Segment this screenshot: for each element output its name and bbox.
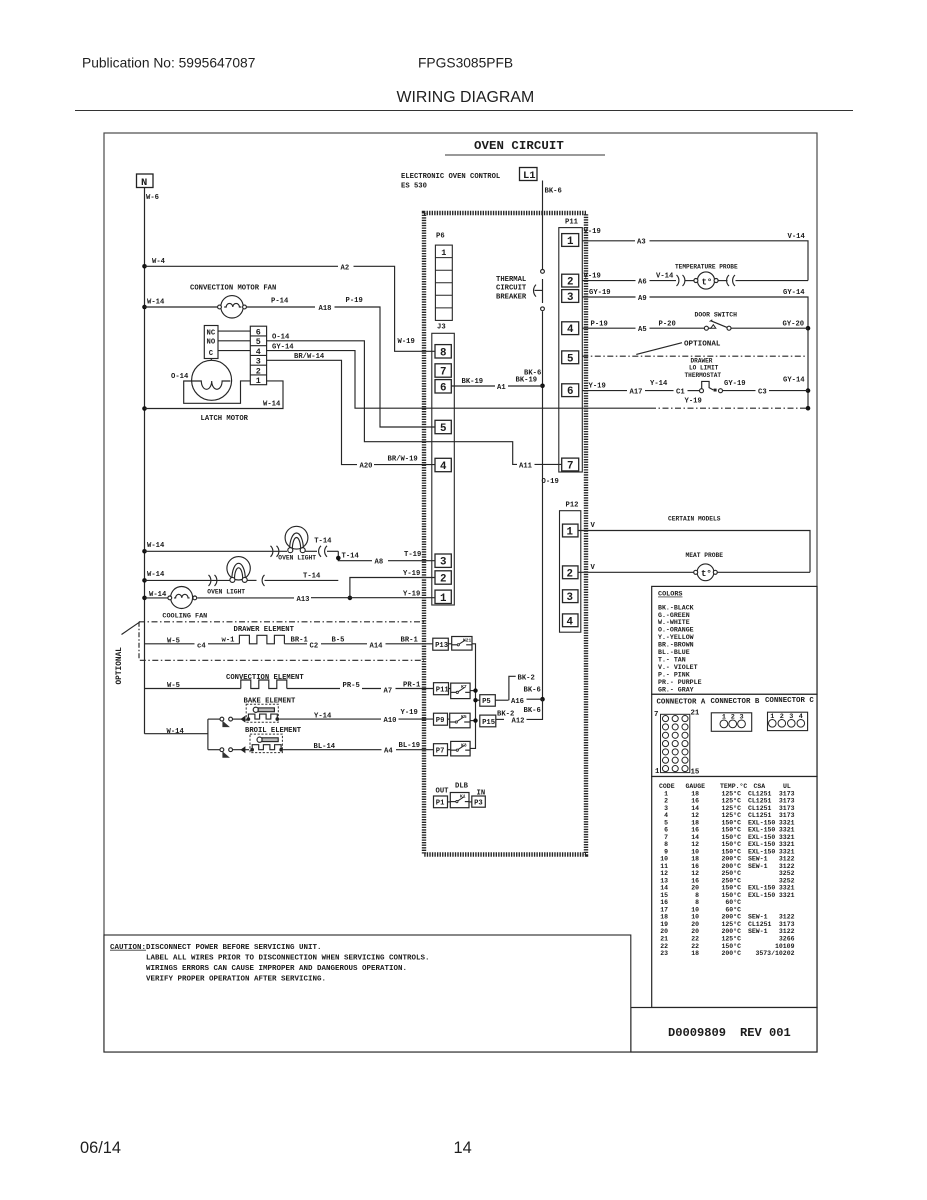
svg-text:O-19: O-19	[542, 478, 559, 486]
svg-text:t°: t°	[702, 277, 713, 287]
pin 3 of J3	[435, 554, 451, 567]
svg-text:200°C: 200°C	[721, 855, 741, 863]
svg-text:P9: P9	[436, 717, 445, 725]
svg-text:250°C: 250°C	[721, 869, 741, 877]
svg-text:BK-19: BK-19	[516, 376, 538, 384]
svg-text:1: 1	[441, 248, 446, 258]
connector P13	[433, 638, 449, 650]
connector P5	[480, 695, 496, 707]
pin 1 of P12	[563, 524, 579, 537]
svg-text:3266: 3266	[779, 936, 795, 943]
svg-text:11: 11	[660, 863, 668, 870]
optional label right	[636, 340, 721, 354]
svg-text:K3: K3	[461, 742, 467, 748]
svg-text:3321: 3321	[779, 819, 795, 826]
connector A pin grid	[654, 710, 700, 777]
wire C to pin 4	[218, 350, 250, 352]
svg-text:EXL-150: EXL-150	[748, 885, 775, 892]
svg-text:1: 1	[664, 790, 668, 797]
svg-text:150°C: 150°C	[721, 833, 741, 841]
connector P9	[434, 713, 448, 725]
svg-text:A8: A8	[375, 559, 384, 567]
svg-text:15: 15	[660, 892, 668, 899]
svg-text:A6: A6	[638, 278, 647, 286]
wire Y-14 A10 Y-19 bake element to P9	[279, 709, 433, 725]
svg-text:BR/W-19: BR/W-19	[388, 456, 418, 464]
svg-text:DISCONNECT POWER BEFORE SERVIC: DISCONNECT POWER BEFORE SERVICING UNIT.	[146, 944, 322, 952]
svg-text:MEAT PROBE: MEAT PROBE	[686, 552, 724, 559]
svg-text:14: 14	[454, 1139, 472, 1157]
svg-text:EXL-150: EXL-150	[748, 848, 775, 855]
svg-text:t°: t°	[701, 569, 712, 579]
svg-text:150°C: 150°C	[721, 818, 741, 826]
pin 2 of P11	[562, 274, 579, 287]
svg-text:DOOR SWITCH: DOOR SWITCH	[695, 312, 738, 319]
svg-text:16: 16	[660, 899, 668, 906]
legend colors box	[652, 586, 817, 694]
wire W-14 latch pin 1 to neutral bus	[145, 381, 284, 409]
svg-text:K7: K7	[461, 684, 467, 690]
svg-text:5: 5	[664, 819, 668, 826]
svg-text:CIRCUIT: CIRCUIT	[496, 285, 527, 293]
svg-text:A14: A14	[370, 642, 384, 650]
wire P11 to K7	[449, 688, 451, 690]
svg-text:BK-2: BK-2	[518, 675, 535, 683]
connector J3	[432, 324, 455, 606]
svg-text:3173: 3173	[779, 812, 795, 819]
connector P12	[560, 502, 581, 633]
svg-text:7: 7	[654, 711, 658, 719]
svg-text:125°C: 125°C	[721, 935, 741, 943]
wire A13 Y-19 cooling fan to J3 pin 1	[197, 590, 435, 603]
svg-text:A5: A5	[638, 326, 647, 334]
pin 5 of J3	[435, 420, 451, 433]
svg-text:CODE: CODE	[659, 783, 675, 790]
wire NO to pin 5	[218, 340, 250, 342]
svg-text:OUT: OUT	[436, 787, 450, 795]
svg-text:3: 3	[440, 557, 446, 569]
relay K5	[450, 713, 470, 728]
svg-text:P6: P6	[436, 233, 445, 241]
svg-text:3173: 3173	[779, 798, 795, 805]
svg-text:WIRING DIAGRAM: WIRING DIAGRAM	[397, 89, 535, 106]
svg-text:15: 15	[691, 769, 700, 777]
relay K21	[452, 637, 472, 651]
svg-text:P12: P12	[566, 502, 579, 510]
svg-text:Y-19: Y-19	[589, 383, 606, 391]
wire W-6 from N	[145, 188, 159, 734]
svg-text:16: 16	[691, 827, 699, 834]
svg-text:A3: A3	[637, 239, 646, 247]
thermal circuit breaker	[496, 270, 544, 311]
svg-text:T-14: T-14	[303, 573, 321, 581]
svg-text:NO: NO	[207, 339, 216, 347]
wire GY-14 latch pin 4 to right side optional	[267, 343, 806, 408]
pin 7 of J3	[435, 364, 451, 377]
svg-text:SEW-1: SEW-1	[748, 856, 768, 863]
svg-text:12: 12	[660, 870, 668, 877]
svg-text:18: 18	[691, 856, 699, 863]
svg-text:A16: A16	[511, 698, 524, 706]
svg-text:P-19: P-19	[346, 297, 363, 305]
svg-text:V.- VIOLET: V.- VIOLET	[658, 664, 698, 671]
svg-text:18: 18	[691, 819, 699, 826]
svg-text:18: 18	[660, 914, 668, 921]
svg-text:21: 21	[691, 710, 700, 718]
relay K3	[451, 741, 470, 756]
relay K7	[451, 683, 470, 699]
svg-text:CONVECTION ELEMENT: CONVECTION ELEMENT	[226, 674, 304, 682]
svg-text:4: 4	[664, 812, 668, 819]
svg-text:3321: 3321	[779, 892, 795, 899]
wire GY-19 A9 GY-14 P11 pin3 to right edge	[582, 289, 810, 411]
svg-text:20: 20	[691, 885, 699, 892]
svg-text:P-14: P-14	[271, 297, 289, 305]
svg-text:W-6: W-6	[146, 194, 159, 202]
svg-text:REV 001: REV 001	[740, 1026, 791, 1040]
svg-text:V: V	[591, 564, 596, 572]
svg-text:7: 7	[567, 461, 573, 473]
svg-text:18: 18	[691, 790, 699, 797]
svg-text:150°C: 150°C	[721, 891, 741, 899]
svg-text:P5: P5	[482, 698, 491, 706]
svg-text:EXL-150: EXL-150	[748, 834, 775, 841]
svg-text:CL1251: CL1251	[748, 790, 772, 797]
svg-text:1: 1	[567, 527, 574, 539]
svg-text:J3: J3	[437, 324, 446, 332]
svg-text:BK-6: BK-6	[545, 188, 562, 196]
motor latch motor	[171, 359, 249, 423]
svg-text:BK-6: BK-6	[524, 707, 541, 715]
svg-text:T-14: T-14	[314, 538, 332, 546]
lamp oven light 1	[145, 526, 339, 561]
connector latch motor pin block	[250, 326, 266, 386]
svg-text:3321: 3321	[779, 834, 795, 841]
svg-text:125°C: 125°C	[721, 811, 741, 819]
svg-text:200°C: 200°C	[721, 862, 741, 870]
pin 8 of J3	[435, 345, 451, 358]
svg-text:DLB: DLB	[455, 783, 469, 791]
svg-text:60°C: 60°C	[725, 898, 741, 906]
svg-text:A4: A4	[384, 748, 393, 756]
svg-text:CONVECTION MOTOR FAN: CONVECTION MOTOR FAN	[190, 285, 276, 293]
svg-text:P-19: P-19	[591, 320, 608, 328]
svg-text:LO LIMIT: LO LIMIT	[689, 365, 719, 372]
svg-text:A13: A13	[297, 596, 310, 604]
svg-text:10: 10	[691, 907, 699, 914]
svg-text:BL-19: BL-19	[399, 742, 421, 750]
svg-text:3: 3	[256, 357, 261, 367]
svg-text:4: 4	[567, 324, 574, 336]
svg-text:C2: C2	[310, 642, 319, 650]
svg-text:8: 8	[664, 841, 668, 848]
svg-text:TEMP.°C: TEMP.°C	[720, 782, 747, 790]
svg-text:17: 17	[660, 907, 668, 914]
svg-text:Y-19: Y-19	[685, 397, 702, 405]
svg-text:GR.- GRAY: GR.- GRAY	[658, 686, 694, 693]
pin 6 of J3	[435, 380, 451, 393]
svg-text:P.- PINK: P.- PINK	[658, 671, 690, 678]
svg-text:SEW-1: SEW-1	[748, 928, 768, 935]
svg-text:W-14: W-14	[167, 728, 185, 736]
wire BK-19 A1 from J3 pin 6 to BK-6 node	[451, 376, 542, 392]
svg-text:V-14: V-14	[788, 233, 806, 241]
svg-text:Y-19: Y-19	[403, 570, 420, 578]
svg-text:UL: UL	[783, 783, 791, 790]
svg-text:Y-19: Y-19	[403, 590, 420, 598]
svg-text:2: 2	[664, 798, 668, 805]
pin 2 of P12	[563, 566, 579, 579]
svg-text:7: 7	[440, 367, 446, 379]
wire latch motor loop to pin 1	[184, 381, 251, 403]
svg-text:20: 20	[660, 928, 668, 935]
svg-text:2: 2	[567, 277, 573, 289]
svg-text:200°C: 200°C	[721, 927, 741, 935]
wire none: page header text	[82, 56, 534, 107]
wire relay output bus	[470, 644, 480, 749]
motor cooling fan	[145, 587, 208, 621]
pin 1 of P11	[562, 234, 579, 247]
svg-text:TEMPERATURE PROBE: TEMPERATURE PROBE	[675, 263, 738, 270]
svg-text:3573/10202: 3573/10202	[755, 950, 794, 957]
svg-text:22: 22	[691, 936, 699, 943]
svg-text:8: 8	[695, 899, 699, 906]
pin 7 of P11	[562, 458, 579, 471]
svg-text:C1: C1	[676, 388, 685, 396]
revision box D0009809 REV 001	[631, 1008, 817, 1053]
wire O-14 latch pin 5 to A11 P11 pin 7	[267, 334, 562, 486]
caution note box	[104, 935, 631, 1052]
svg-text:16: 16	[691, 863, 699, 870]
svg-text:THERMAL: THERMAL	[496, 276, 526, 284]
svg-text:T.- TAN: T.- TAN	[658, 657, 686, 664]
wire BL-14 A4 BL-19 broil element to P7	[283, 742, 433, 756]
wire V-19 A3 V-14 P11 pin1 to right edge	[582, 228, 808, 281]
svg-text:V: V	[591, 522, 596, 530]
svg-text:GY-20: GY-20	[783, 320, 805, 328]
wire BK-6 breaker to A1 junction and down to A16	[524, 311, 545, 701]
svg-text:200°C: 200°C	[721, 913, 741, 921]
pin 2 of J3	[435, 571, 451, 584]
svg-text:W.-WHITE: W.-WHITE	[658, 619, 690, 626]
svg-text:WIRINGS ERRORS CAN CAUSE IMPRO: WIRINGS ERRORS CAN CAUSE IMPROPER AND DA…	[146, 965, 407, 973]
svg-text:150°C: 150°C	[721, 826, 741, 834]
svg-text:20: 20	[691, 921, 699, 928]
thermistor meat probe	[578, 552, 810, 581]
svg-text:PR.- PURPLE: PR.- PURPLE	[658, 679, 702, 686]
svg-text:A2: A2	[341, 264, 350, 272]
svg-text:10: 10	[660, 856, 668, 863]
svg-text:GY-14: GY-14	[783, 289, 805, 297]
svg-text:W-14: W-14	[263, 400, 281, 408]
resistor bake element	[208, 697, 296, 727]
svg-text:A10: A10	[384, 717, 397, 725]
svg-text:P11: P11	[565, 219, 579, 227]
svg-text:VERIFY PROPER OPERATION AFTER: VERIFY PROPER OPERATION AFTER SERVICING.	[146, 975, 326, 983]
electronic oven control board dashed border	[424, 213, 586, 855]
wire T-14 A8 T-19 light junction to J3 pin 3	[336, 551, 435, 567]
wire P9 to K5	[448, 718, 450, 720]
wire P7 to K3	[448, 749, 451, 751]
svg-text:CL1251: CL1251	[748, 798, 772, 805]
connector P7	[434, 744, 448, 756]
connector C pins	[768, 712, 808, 730]
svg-text:O.-ORANGE: O.-ORANGE	[658, 627, 694, 634]
svg-text:3252: 3252	[779, 870, 795, 877]
svg-text:18: 18	[691, 950, 699, 957]
svg-text:A11: A11	[519, 462, 533, 470]
terminal L1	[520, 168, 538, 183]
connector P15	[480, 715, 496, 727]
svg-text:3321: 3321	[779, 827, 795, 834]
svg-text:06/14: 06/14	[80, 1139, 121, 1157]
wire Y-19 branch cooling fan node to J3 pin 2	[348, 570, 435, 600]
svg-text:3252: 3252	[779, 877, 795, 884]
svg-text:T-14: T-14	[342, 552, 360, 560]
pin 6 of P11	[562, 384, 579, 397]
svg-text:3321: 3321	[779, 848, 795, 855]
svg-text:CAUTION:: CAUTION:	[110, 944, 146, 952]
resistor drawer element	[145, 626, 433, 651]
pin 3 of P12	[563, 590, 579, 603]
pin 3 of P11	[562, 290, 579, 303]
wire P13 to K21	[448, 643, 451, 645]
wire W-4 A2 W-19 neutral to J3 pin 8	[145, 258, 436, 351]
svg-text:14: 14	[691, 834, 699, 841]
svg-text:W-14: W-14	[147, 298, 165, 306]
svg-text:BK-19: BK-19	[462, 378, 484, 386]
svg-text:K21: K21	[463, 638, 472, 644]
svg-text:150°C: 150°C	[721, 884, 741, 892]
svg-text:BK.-BLACK: BK.-BLACK	[658, 604, 694, 611]
svg-text:23: 23	[660, 950, 668, 957]
optional section label and dash-dot boundary	[116, 622, 424, 685]
svg-text:CL1251: CL1251	[748, 805, 772, 812]
svg-text:P7: P7	[436, 748, 445, 756]
svg-text:125°C: 125°C	[721, 789, 741, 797]
svg-text:C3: C3	[758, 388, 767, 396]
outer diagram frame	[104, 133, 817, 1052]
svg-text:EXL-150: EXL-150	[748, 892, 775, 899]
svg-text:V-14: V-14	[656, 272, 674, 280]
svg-text:16: 16	[691, 798, 699, 805]
lamp oven light 2	[145, 557, 339, 596]
svg-text:P3: P3	[474, 799, 483, 807]
svg-text:P-20: P-20	[659, 320, 676, 328]
svg-text:PR-5: PR-5	[343, 682, 360, 690]
svg-text:16: 16	[691, 877, 699, 884]
svg-text:OPTIONAL: OPTIONAL	[684, 340, 721, 348]
svg-text:10: 10	[691, 848, 699, 855]
svg-text:150°C: 150°C	[721, 942, 741, 950]
wire P-14 A18 P-19 fan to J3 pin 5	[246, 297, 435, 427]
wire A16 BK-6 P5 to main BK-6 node with BK-2 branch	[495, 675, 542, 707]
svg-text:THERMOSTAT: THERMOSTAT	[685, 372, 722, 379]
svg-text:13: 13	[660, 877, 668, 884]
svg-text:12: 12	[691, 870, 699, 877]
svg-text:22: 22	[660, 943, 668, 950]
pin 4 of J3	[435, 458, 451, 471]
table wire gauge codes	[652, 777, 817, 1008]
wire V P12 pin1 certain models	[578, 516, 810, 573]
svg-text:4: 4	[440, 461, 447, 473]
svg-text:LABEL ALL WIRES PRIOR TO DISCO: LABEL ALL WIRES PRIOR TO DISCONNECTION W…	[146, 954, 430, 962]
connector B pins	[711, 713, 751, 732]
svg-text:1: 1	[655, 768, 660, 776]
svg-text:Y-19: Y-19	[401, 709, 418, 717]
wire BR/W-14 A20 BR/W-19 latch pin 3 to J3 pin 4	[267, 353, 435, 471]
svg-text:60°C: 60°C	[725, 906, 741, 914]
svg-text:V-19: V-19	[584, 228, 601, 236]
svg-text:NC: NC	[207, 329, 216, 337]
thermostat drawer lo limit	[582, 357, 808, 405]
svg-text:12: 12	[691, 812, 699, 819]
svg-text:CERTAIN MODELS: CERTAIN MODELS	[668, 516, 721, 523]
svg-text:3122: 3122	[779, 856, 795, 863]
svg-text:EXL-150: EXL-150	[748, 841, 775, 848]
svg-text:2: 2	[256, 366, 261, 376]
svg-text:1: 1	[440, 593, 447, 605]
svg-text:GY-19: GY-19	[724, 380, 746, 388]
svg-text:7: 7	[664, 834, 668, 841]
svg-text:W-19: W-19	[398, 338, 415, 346]
svg-text:5: 5	[567, 353, 573, 365]
svg-text:T-19: T-19	[404, 551, 421, 559]
svg-text:A12: A12	[512, 717, 525, 725]
svg-text:P1: P1	[436, 800, 445, 808]
svg-text:A1: A1	[497, 384, 506, 392]
pin 1 of J3	[435, 590, 451, 603]
wire BK-2 A12 BK-6 P15 to BK-6 drop	[496, 699, 543, 725]
svg-text:8: 8	[695, 892, 699, 899]
svg-text:OPTIONAL: OPTIONAL	[116, 647, 124, 685]
svg-text:CL1251: CL1251	[748, 921, 772, 928]
relay K1 DLB	[434, 783, 486, 808]
svg-text:3173: 3173	[779, 790, 795, 797]
svg-text:LATCH MOTOR: LATCH MOTOR	[201, 415, 249, 423]
svg-text:K1: K1	[460, 794, 466, 800]
switch door switch	[582, 312, 808, 334]
svg-text:BL.-BLUE: BL.-BLUE	[658, 649, 690, 656]
wire W-14 neutral bus to bake broil split	[145, 719, 208, 750]
svg-text:1: 1	[567, 236, 574, 248]
svg-text:250°C: 250°C	[721, 876, 741, 884]
svg-text:GY-19: GY-19	[589, 289, 611, 297]
svg-text:3173: 3173	[779, 921, 795, 928]
wire BK-6 from L1 down to breaker	[543, 181, 562, 270]
svg-text:K5: K5	[461, 714, 467, 720]
resistor convection element	[145, 674, 434, 695]
pin 5 of P11	[562, 351, 579, 364]
svg-text:W-14: W-14	[147, 542, 165, 550]
svg-text:BREAKER: BREAKER	[496, 293, 527, 301]
svg-text:150°C: 150°C	[721, 840, 741, 848]
svg-text:P13: P13	[435, 642, 448, 650]
svg-text:10: 10	[691, 914, 699, 921]
svg-text:4: 4	[256, 347, 261, 357]
svg-text:4: 4	[567, 616, 574, 628]
svg-text:3122: 3122	[779, 914, 795, 921]
svg-text:GAUGE: GAUGE	[686, 783, 706, 790]
svg-text:W-4: W-4	[152, 258, 166, 266]
svg-text:19: 19	[660, 921, 668, 928]
motor convection fan	[145, 285, 277, 318]
svg-text:125°C: 125°C	[721, 920, 741, 928]
svg-text:OVEN CIRCUIT: OVEN CIRCUIT	[474, 139, 564, 153]
switch NC NO C latch contacts box	[204, 326, 218, 359]
svg-text:A18: A18	[319, 305, 332, 313]
svg-text:3321: 3321	[779, 885, 795, 892]
